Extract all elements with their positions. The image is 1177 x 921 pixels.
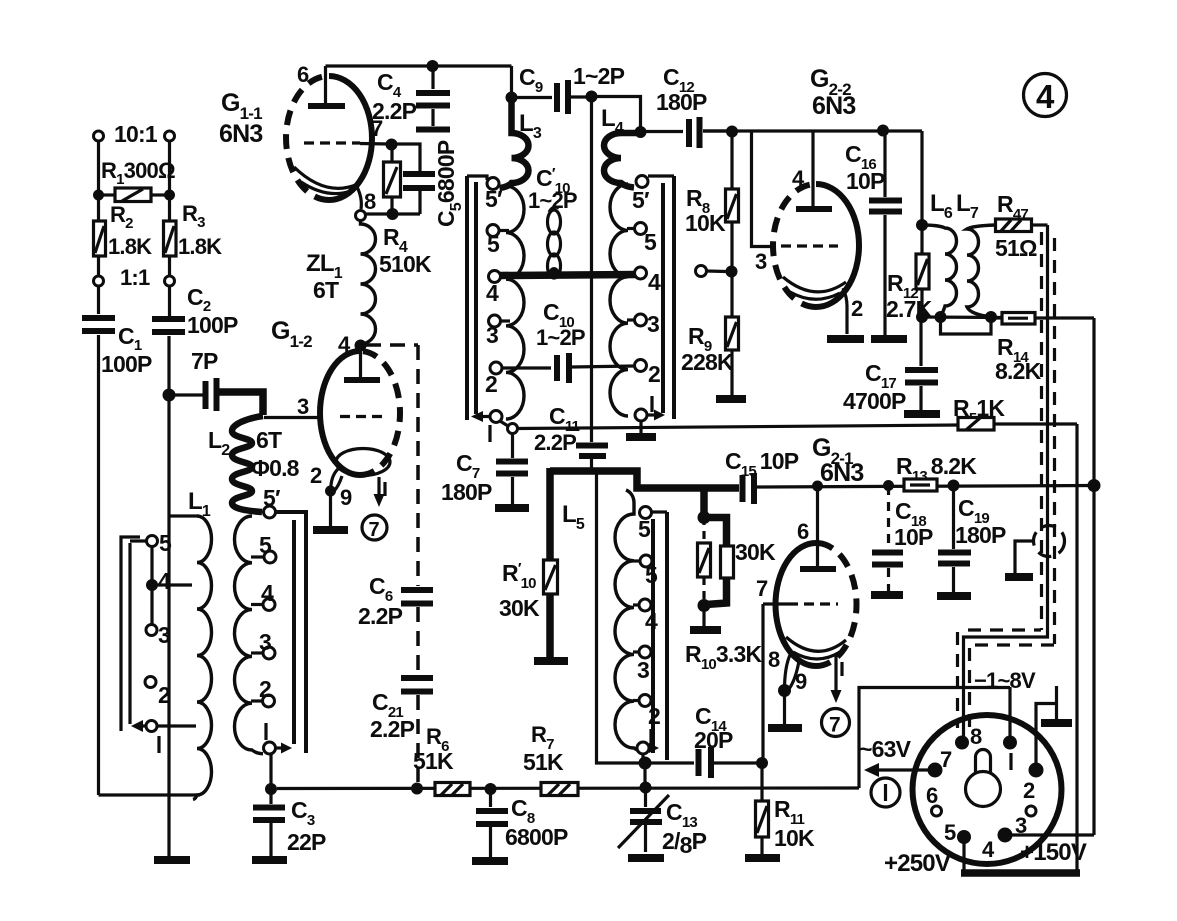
- node C3 junction: [265, 783, 277, 795]
- circled 1: [871, 778, 900, 807]
- resistor R5: [958, 418, 994, 431]
- socket pin 2: [1029, 763, 1044, 778]
- L3 tap 3 circle: [489, 315, 501, 327]
- wire tap1 right to coil: [157, 724, 196, 727]
- shield L3 left inner: [474, 182, 478, 414]
- wire tap5 to loop: [130, 539, 147, 542]
- capacitor 7P: [169, 393, 203, 396]
- resistor R13: [904, 479, 937, 491]
- ground C13: [628, 854, 664, 862]
- pin 8 circle G1-1: [356, 211, 366, 221]
- svg-text:6: 6: [797, 519, 809, 544]
- node C14 right: [756, 757, 768, 769]
- L3 tap 2 circle: [490, 362, 502, 374]
- svg-text:5: 5: [944, 820, 956, 845]
- tube G2-1 cathode: [786, 637, 846, 651]
- svg-text:2: 2: [485, 371, 497, 397]
- resistor R10p 30K thick leads: [546, 468, 554, 560]
- inductor L7: [967, 225, 995, 317]
- svg-text:2.2P: 2.2P: [370, 716, 415, 742]
- svg-text:8: 8: [768, 647, 780, 672]
- ground C7: [495, 504, 529, 512]
- wire tap4 to coil: [152, 583, 192, 586]
- svg-text:51Ω: 51Ω: [995, 235, 1037, 261]
- wire G2-1 pin7 down: [761, 604, 764, 763]
- svg-text:2/8P: 2/8P: [662, 828, 707, 858]
- svg-text:8.2K: 8.2K: [995, 358, 1042, 384]
- svg-text:10P: 10P: [894, 524, 933, 550]
- shield L4 right inner: [661, 183, 665, 413]
- tube G1-2 grid: [340, 415, 388, 418]
- svg-text:6N3: 6N3: [219, 120, 262, 148]
- wire plate bus G2-2: [703, 129, 922, 132]
- wire node to C14: [645, 761, 694, 764]
- svg-text:2.2P: 2.2P: [372, 98, 417, 124]
- svg-text:3: 3: [259, 629, 271, 655]
- ground G2-2 cathode: [827, 335, 864, 343]
- shield L5 outer: [665, 512, 669, 760]
- node pin8 G2-1: [778, 684, 791, 697]
- svg-text:6: 6: [926, 783, 938, 808]
- shield L5 inner: [651, 519, 655, 753]
- shield L4 right outer: [672, 176, 676, 419]
- svg-text:51K: 51K: [523, 749, 564, 775]
- ground C17: [904, 410, 940, 418]
- svg-text:6N3: 6N3: [812, 92, 855, 120]
- capacitor C10p twisted: [548, 207, 561, 278]
- node C9 right: [586, 91, 598, 103]
- thick bus C11 bottom: [550, 471, 739, 488]
- wire pin6 top: [326, 64, 512, 67]
- thick bottom bar: [961, 869, 1080, 877]
- resistor R47: [996, 219, 1032, 232]
- node R4 top: [386, 139, 398, 151]
- pin2 lead G1-2: [331, 469, 339, 491]
- wire tap1 arrow right: [276, 746, 285, 749]
- svg-text:10K: 10K: [774, 825, 815, 851]
- node L6 top: [916, 219, 928, 231]
- svg-text:+150V: +150V: [1020, 839, 1087, 866]
- circled 7 (G2-1): [822, 709, 850, 737]
- capacitor C16: [883, 131, 886, 197]
- thick coupling bus tap4: [500, 275, 636, 276]
- label 1 (L3): [488, 425, 491, 442]
- wire G1-2 pin3 lead: [264, 416, 321, 419]
- svg-text:2.2P: 2.2P: [358, 603, 403, 629]
- socket pin 5: [957, 830, 971, 844]
- svg-text:180P: 180P: [441, 479, 492, 505]
- svg-text:Φ0.8: Φ0.8: [251, 455, 300, 481]
- resistor R11: [760, 763, 763, 801]
- L2 tap 3 circle: [263, 647, 275, 659]
- L4 tap 2 circle: [635, 360, 647, 372]
- wire L3 tap2 to C10: [502, 366, 551, 369]
- ground C19: [937, 592, 971, 600]
- node C9 left: [506, 92, 518, 104]
- svg-text:10P: 10P: [846, 168, 885, 194]
- inductor L2 secondary winding: [235, 516, 264, 754]
- pin1 arrow G1-2: [377, 477, 380, 498]
- svg-text:4: 4: [1036, 78, 1055, 115]
- tube G1-1 envelope: [329, 76, 372, 200]
- svg-text:22P: 22P: [287, 829, 326, 855]
- L2 tap 2 circle: [263, 695, 275, 707]
- node C16 top: [877, 125, 889, 137]
- node C19: [948, 480, 960, 492]
- shield L4 top hook: [648, 174, 674, 177]
- node 7P junction: [163, 389, 176, 402]
- wire L5 tap1 down: [641, 754, 644, 763]
- svg-text:51K: 51K: [413, 748, 454, 774]
- svg-text:5′: 5′: [485, 186, 503, 212]
- svg-text:100P: 100P: [101, 351, 152, 377]
- dashed line C21 to bus: [416, 695, 420, 786]
- pin9 lead G1-2: [334, 476, 342, 491]
- tube G1-1 grid: [304, 141, 360, 144]
- wire to left riser: [597, 473, 646, 763]
- shield L5 top hook: [652, 510, 668, 513]
- L4 tap 1 circle: [635, 409, 647, 421]
- svg-text:4: 4: [261, 580, 274, 606]
- svg-text:~63V: ~63V: [859, 736, 912, 762]
- wire L2 tap1 down to bus: [269, 754, 272, 789]
- resistor R2: [94, 221, 106, 256]
- capacitor C10: [554, 355, 560, 381]
- svg-text:6N3: 6N3: [820, 459, 863, 487]
- capacitor C6: [401, 587, 433, 593]
- svg-text:9: 9: [340, 485, 352, 510]
- wire bottom bus: [277, 786, 859, 790]
- resistor R6: [435, 783, 470, 796]
- shield L3 left outer: [465, 176, 469, 420]
- ground G1-2 cathode: [313, 526, 348, 534]
- L4 tap 4 circle: [635, 267, 647, 279]
- node R4 bottom: [387, 208, 399, 220]
- wire cathode bottom row: [922, 315, 1002, 319]
- svg-text:5: 5: [644, 229, 657, 255]
- cable shield dashed left: [1040, 232, 1043, 630]
- node right bus R13: [1088, 479, 1101, 492]
- inductor L3 top thick: [500, 98, 529, 189]
- svg-text:1:1: 1:1: [120, 265, 150, 290]
- inductor L6: [922, 225, 957, 317]
- svg-text:4: 4: [158, 568, 171, 594]
- svg-text:7: 7: [829, 714, 840, 737]
- label 1 (G1-2): [383, 482, 386, 496]
- L5 tap 1 circle: [637, 742, 649, 754]
- L5 tap 2 circle: [639, 695, 651, 707]
- socket keyhole: [966, 772, 1001, 807]
- wire L1 top: [169, 514, 197, 517]
- node C18: [883, 480, 894, 491]
- inductor ZL1: [361, 221, 376, 346]
- L4 tap 3 circle: [635, 314, 647, 326]
- resistor R4: [390, 144, 393, 162]
- svg-text:2: 2: [310, 463, 322, 488]
- wire tap1 left with arrow: [138, 724, 146, 727]
- cable shield dashed bottom horizontal: [975, 643, 1054, 646]
- wire pin4 right: [1005, 833, 1094, 836]
- svg-text:3: 3: [755, 249, 767, 274]
- svg-text:7: 7: [940, 747, 952, 772]
- svg-text:4700P: 4700P: [843, 388, 906, 414]
- svg-text:1.8K: 1.8K: [108, 234, 152, 259]
- capacitor C4: [431, 66, 434, 89]
- wire top to C9: [510, 66, 513, 97]
- wire R5 down right: [1075, 424, 1078, 873]
- svg-text:3: 3: [158, 622, 170, 648]
- svg-text:100P: 100P: [187, 312, 238, 338]
- wire grid node: [392, 144, 420, 171]
- svg-text:4: 4: [982, 837, 995, 862]
- svg-text:510K: 510K: [379, 251, 432, 277]
- L3 tap 1 circle: [490, 411, 502, 423]
- node R8-R9: [726, 266, 738, 278]
- svg-text:2.2P: 2.2P: [534, 430, 576, 455]
- svg-text:180P: 180P: [656, 89, 707, 115]
- L5 tap 5 circle: [640, 555, 652, 567]
- capacitor C17: [919, 317, 922, 366]
- svg-text:5: 5: [487, 231, 500, 257]
- socket pin 1: [1003, 736, 1017, 750]
- wire C1 down left rail: [97, 335, 100, 795]
- wire pin7 arrow left: [874, 768, 935, 771]
- wire grid return line: [517, 425, 958, 429]
- ground G2-1 cathode: [768, 724, 802, 732]
- capacitor C2: [152, 316, 185, 322]
- label 1 (L4): [650, 396, 653, 412]
- L4 tap 5 circle: [635, 223, 647, 235]
- capacitor C12: [686, 119, 692, 147]
- wire L4 node to C12: [641, 130, 684, 133]
- antenna loop line B: [128, 543, 131, 724]
- resistor R9: [726, 317, 739, 350]
- inductor L4 top thick: [604, 133, 638, 188]
- svg-text:3: 3: [647, 311, 659, 337]
- L2 tap 4 circle: [263, 599, 275, 611]
- tube G2-1 grid: [788, 602, 838, 605]
- wire C2 down rail: [167, 336, 170, 857]
- node R1 left: [93, 190, 104, 201]
- wire right terminal down: [168, 141, 171, 316]
- circled 7 (G1-2): [362, 515, 387, 540]
- ground socket pin2: [1041, 719, 1072, 727]
- svg-text:6T: 6T: [313, 277, 339, 303]
- shielded cable solid core: [964, 225, 1048, 740]
- node L6 bot junction: [935, 311, 947, 323]
- ground C3: [252, 856, 287, 864]
- ground R11: [745, 854, 780, 862]
- svg-text:228K: 228K: [681, 349, 734, 375]
- L3 tap 5 circle: [487, 225, 499, 237]
- L1 tap 2 circle: [145, 677, 156, 688]
- socket pin 3: [1026, 806, 1036, 816]
- svg-text:7: 7: [369, 519, 380, 541]
- shield L3 top hook: [467, 176, 487, 180]
- antenna loop line A: [121, 537, 140, 731]
- wire 7P to L2 elbow: [219, 392, 263, 415]
- L1 tap 4 node: [146, 579, 158, 591]
- svg-text:3: 3: [297, 394, 309, 419]
- capacitor C1: [82, 315, 115, 321]
- svg-text:30K: 30K: [735, 539, 776, 565]
- resistor R1: [115, 188, 151, 202]
- resistor 30K thick branch: [704, 518, 727, 547]
- circled 4 page number: [1024, 74, 1067, 117]
- node bus C8: [485, 783, 497, 795]
- pin2 lead G2-2: [843, 288, 847, 334]
- svg-text:2: 2: [1023, 778, 1035, 803]
- svg-text:30K: 30K: [499, 595, 540, 621]
- capacitor C9: [554, 83, 560, 112]
- L1 tap 1 circle: [146, 721, 157, 732]
- svg-text:5′: 5′: [263, 485, 281, 511]
- tube G2-2 envelope: [816, 184, 859, 307]
- resistor R7: [541, 783, 578, 796]
- svg-text:3: 3: [637, 657, 649, 683]
- tube G1-2 envelope: [320, 351, 360, 475]
- headphone jack: [1034, 526, 1065, 557]
- tube G2-1 envelope: [776, 543, 817, 666]
- svg-text:4: 4: [648, 269, 661, 295]
- wire G2-2 pin3: [752, 131, 775, 247]
- label 1 (L5): [649, 729, 652, 746]
- terminal input left: [94, 131, 104, 141]
- wire top right corner down: [920, 131, 923, 225]
- node L7 bot junction: [985, 311, 997, 323]
- svg-text:6T: 6T: [256, 427, 282, 453]
- wire bottom left to L1 bottom: [99, 793, 201, 796]
- label 1 (G2-1): [840, 662, 843, 676]
- capacitor C14: [696, 749, 702, 776]
- L4 tap1 arrow right: [647, 413, 657, 416]
- socket pin 6: [932, 806, 942, 816]
- svg-text:1~2P: 1~2P: [528, 188, 577, 213]
- wire left terminal down: [97, 141, 100, 314]
- node pin2 G1-2: [325, 486, 336, 497]
- resistor R14: [991, 316, 1002, 319]
- node bus C13: [640, 782, 652, 794]
- inductor L5: [615, 490, 643, 752]
- label 1 (L2): [264, 723, 267, 740]
- center vertical line: [590, 97, 593, 443]
- node 30K top: [698, 511, 711, 524]
- node G2-1 pin6: [812, 481, 823, 492]
- L5 tap 3 circle: [639, 646, 651, 658]
- L5 tap 4 circle: [639, 599, 651, 611]
- L3 tap 4 circle: [489, 271, 501, 283]
- svg-text:8: 8: [970, 724, 982, 749]
- label 1 (L1): [157, 736, 160, 753]
- tube G1-2 plate: [359, 345, 362, 377]
- inductor L4 winding: [610, 184, 628, 416]
- svg-text:2: 2: [648, 361, 660, 387]
- node circle right 1:1: [165, 276, 175, 286]
- ground L4 tap1: [639, 421, 642, 433]
- node circle left 1:1: [94, 276, 104, 286]
- svg-text:3: 3: [486, 322, 498, 348]
- wire pin2 hook: [1036, 704, 1057, 771]
- svg-text:1~2P: 1~2P: [573, 63, 625, 89]
- node R1 right: [164, 190, 175, 201]
- svg-text:1.8K: 1.8K: [178, 234, 222, 259]
- capacitor C3: [269, 789, 272, 804]
- tube socket circle: [913, 715, 1062, 864]
- wire to L4 top: [592, 97, 641, 133]
- socket pin 4: [998, 828, 1013, 843]
- node L4 top: [635, 126, 647, 138]
- capacitor C19: [952, 486, 955, 549]
- inductor L2 6T: [232, 416, 263, 512]
- socket pin 7: [928, 763, 943, 778]
- tube G1-2 cathode ring: [336, 449, 390, 476]
- svg-text:10:1: 10:1: [114, 121, 158, 147]
- svg-text:1~2P: 1~2P: [536, 325, 585, 350]
- svg-text:+250V: +250V: [884, 850, 951, 877]
- svg-text:9: 9: [795, 669, 807, 694]
- L1 tap 5 circle: [147, 536, 158, 547]
- node L5 bottom: [639, 757, 652, 770]
- pin1 arrow G2-1: [834, 655, 837, 694]
- node C11 open circle: [508, 424, 518, 434]
- cable shield dashed top horizontal: [968, 628, 1041, 631]
- svg-text:5′: 5′: [632, 187, 650, 213]
- ground C18: [871, 591, 903, 599]
- ground under L1 rail: [154, 856, 190, 864]
- L5 tap 5' circle: [640, 507, 652, 519]
- tube G2-1 plate: [816, 486, 819, 566]
- tube G2-2 plate: [796, 206, 832, 212]
- terminal circle at R8-R9: [696, 266, 707, 277]
- svg-text:4: 4: [486, 280, 499, 306]
- svg-text:180P: 180P: [955, 522, 1006, 548]
- L3 tap1 arrow left: [479, 415, 490, 418]
- node R8 top: [726, 126, 738, 138]
- L2 tap 5' circle: [264, 506, 276, 518]
- tube G2-2 cathode: [783, 277, 846, 292]
- capacitor C5: [403, 171, 435, 177]
- svg-text:6800P: 6800P: [505, 824, 568, 850]
- wire pin5 down: [962, 837, 965, 871]
- ground C8: [472, 857, 508, 865]
- L4 tap 5' circle: [636, 176, 648, 188]
- capacitor C7: [511, 433, 514, 458]
- L2 tap 1 circle: [264, 742, 276, 754]
- svg-text:20P: 20P: [694, 727, 733, 753]
- wire taps 5-4-3: [150, 546, 153, 625]
- tube G2-2 grid: [781, 244, 838, 247]
- ground R9: [716, 395, 746, 403]
- svg-text:5: 5: [159, 530, 172, 556]
- inductor L3 winding: [506, 186, 524, 419]
- ground headphone: [1005, 573, 1033, 581]
- tube G1-1 cathode: [294, 167, 358, 188]
- capacitor C18 dashed leads: [887, 486, 890, 549]
- dashed line from G1-2 plate node: [366, 343, 418, 347]
- capacitor C21: [401, 675, 433, 681]
- capacitor C8: [489, 789, 492, 807]
- L3 tap 5' circle: [487, 178, 499, 190]
- shield line outer right of L2: [276, 512, 306, 753]
- ground R10: [690, 626, 721, 634]
- svg-text:7: 7: [756, 576, 768, 601]
- node C4 top: [427, 60, 439, 72]
- ground R10p: [534, 657, 568, 665]
- svg-text:6: 6: [297, 62, 309, 87]
- shield line inner right of L2: [292, 520, 296, 744]
- wire L6-L7 bottom loop: [941, 317, 992, 334]
- cable shield dashed lower left: [956, 632, 959, 728]
